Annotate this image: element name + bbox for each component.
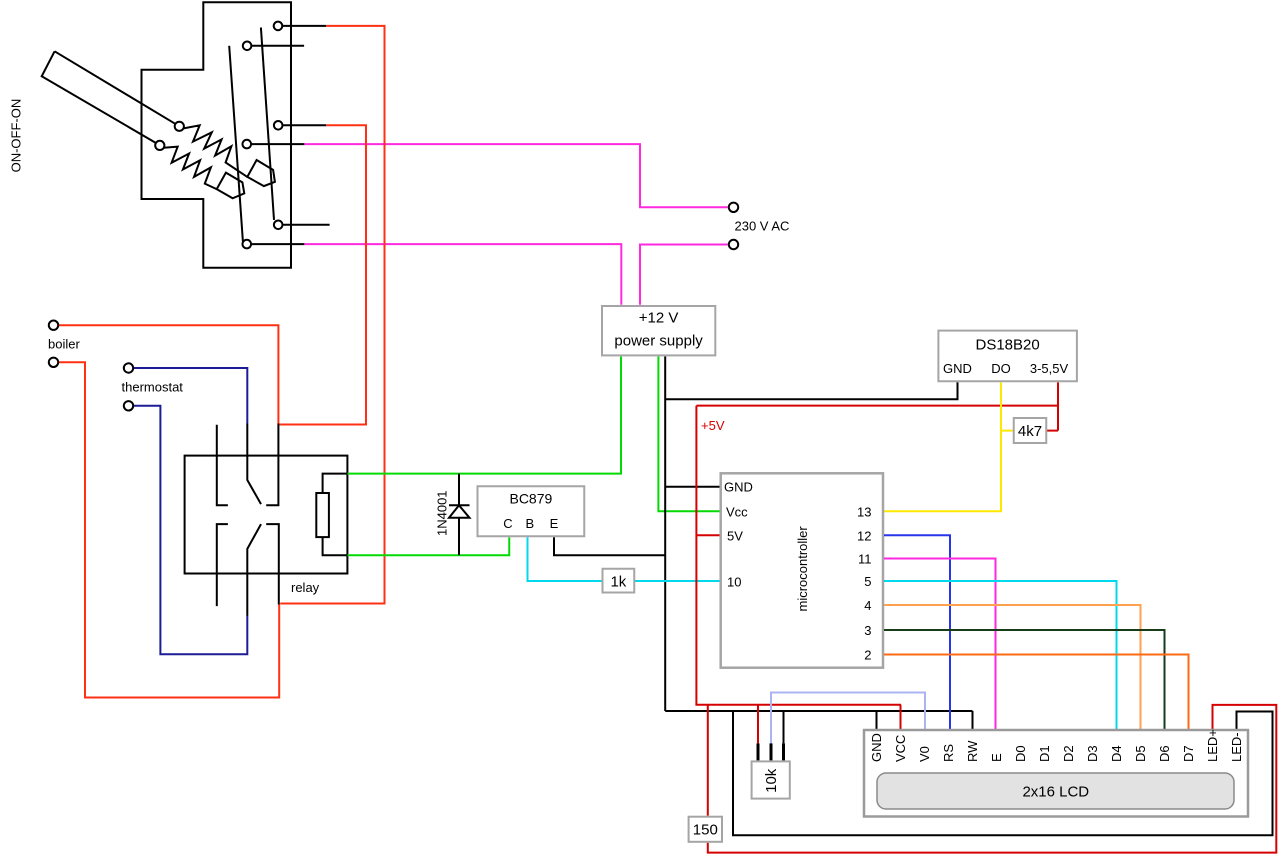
wire black: 10k wiper lead bbox=[770, 743, 773, 760]
svg-text:D4: D4 bbox=[1109, 745, 1124, 762]
svg-text:D5: D5 bbox=[1133, 745, 1148, 762]
diode D1 triangle bbox=[449, 505, 470, 518]
svg-text:2: 2 bbox=[864, 648, 871, 663]
switch S1 plunger lower bbox=[217, 173, 245, 199]
svg-text:LED+: LED+ bbox=[1205, 729, 1220, 762]
svg-text:+5V: +5V bbox=[701, 418, 725, 433]
wire red: 150 resistor to LCD LED+ loop bbox=[708, 705, 1277, 853]
wire blue: pin 12 to LCD RS bbox=[884, 535, 950, 729]
relay K1 lower contact NC (stub down) bbox=[217, 524, 228, 606]
wire lavender: 10k wiper to LCD V0 bbox=[771, 693, 925, 761]
svg-text:4k7: 4k7 bbox=[1018, 423, 1042, 440]
relay K1 upper contact NO (to boiler red) bbox=[266, 424, 278, 506]
svg-text:Vcc: Vcc bbox=[726, 504, 748, 519]
svg-text:BC879: BC879 bbox=[509, 491, 552, 507]
svg-text:VCC: VCC bbox=[893, 735, 908, 762]
switch S1 terminal circle pin 3 bbox=[274, 121, 283, 130]
wire yellow: DO junction to 4k7 bbox=[1001, 430, 1014, 432]
svg-text:150: 150 bbox=[693, 822, 718, 839]
wire black: drop to 10k right pin bbox=[783, 711, 785, 743]
wire yellow: DS18B20 DO down to microcontroller pin 13 bbox=[884, 382, 1001, 511]
relay K1 box bbox=[185, 456, 348, 574]
LCD display area bbox=[877, 773, 1234, 809]
wire black: transistor emitter to GND vertical bbox=[554, 537, 665, 555]
svg-text:1k: 1k bbox=[610, 574, 626, 591]
wire dark green: pin 3 to LCD D6 bbox=[884, 630, 1165, 729]
svg-text:12: 12 bbox=[857, 528, 871, 543]
relay K1 coil wire top bbox=[323, 474, 348, 493]
wire black: 10k right pin lead bbox=[782, 743, 785, 760]
wire magenta: switch pin 6 to power supply input 1 bbox=[304, 244, 621, 305]
svg-text:E: E bbox=[550, 516, 559, 531]
svg-text:D2: D2 bbox=[1061, 745, 1076, 762]
svg-text:LED-: LED- bbox=[1229, 732, 1244, 762]
wire magenta: pin 11 to LCD E bbox=[884, 559, 996, 730]
switch S1 lever bbox=[42, 51, 180, 145]
wire magenta: 230V terminal 2 to power supply input 2 bbox=[640, 245, 728, 305]
switch S1 terminal circle pin 5 bbox=[274, 221, 283, 230]
switch S1 terminal circle pin 2 bbox=[243, 42, 252, 51]
svg-text:D0: D0 bbox=[1013, 745, 1028, 762]
svg-text:2x16 LCD: 2x16 LCD bbox=[1022, 784, 1089, 801]
switch S1 terminal stub pin 1 bbox=[282, 25, 327, 27]
wire cyan: transistor base through 1k to microcontroller pin 10 bbox=[528, 537, 603, 581]
wire cyan: 1k to microcontroller pin 10 bbox=[634, 580, 719, 582]
switch S1 pivot circle upper bbox=[175, 122, 184, 131]
svg-text:5V: 5V bbox=[727, 528, 743, 543]
diode D1 cathode bar bbox=[449, 504, 470, 506]
wire red +5V: 4k7 to supply vertical bbox=[1046, 430, 1058, 432]
wire black: power supply GND main vertical bbox=[664, 357, 666, 712]
wire dark blue: thermostat terminal 1 to relay upper arm bbox=[134, 368, 248, 424]
wire black: GND bottom rail to LCD (GND, RW, 10k) bbox=[665, 710, 972, 712]
svg-text:power supply: power supply bbox=[614, 333, 703, 350]
switch S1 terminal circle pin 4 bbox=[243, 140, 252, 149]
wire black: 10k left pin lead bbox=[757, 743, 760, 760]
switch S1 moving contact bar right bbox=[261, 28, 274, 220]
svg-text:ON-OFF-ON: ON-OFF-ON bbox=[9, 99, 24, 173]
relay K1 lower contact NO (to boiler red) bbox=[266, 524, 279, 604]
switch S1 terminal stub pin 4 bbox=[251, 143, 305, 145]
svg-text:10: 10 bbox=[727, 575, 741, 590]
svg-text:3: 3 bbox=[864, 623, 871, 638]
wire black: drop to LCD GND pin bbox=[876, 711, 878, 729]
svg-text:230 V AC: 230 V AC bbox=[735, 219, 790, 234]
microcontroller U1 box bbox=[721, 473, 883, 667]
wire cyan: pin 5 to LCD D4 bbox=[884, 581, 1117, 729]
sensor U3 DS18B20 box bbox=[938, 331, 1077, 382]
wire red: drop to LCD VCC pin bbox=[900, 705, 902, 729]
svg-text:DO: DO bbox=[991, 361, 1011, 376]
230V AC terminal circle 2 bbox=[729, 240, 738, 249]
wire red: branch to microcontroller 5V pin bbox=[696, 534, 719, 536]
wire green: relay coil bottom to transistor collector bbox=[347, 537, 509, 555]
potentiometer R4 10k box bbox=[752, 761, 790, 798]
relay K1 upper moving arm bbox=[247, 424, 261, 505]
svg-text:1N4001: 1N4001 bbox=[435, 490, 450, 536]
wire black: GND loop to LCD LED- bbox=[733, 711, 1273, 835]
svg-text:3-5,5V: 3-5,5V bbox=[1030, 361, 1069, 376]
svg-text:5: 5 bbox=[864, 574, 871, 589]
svg-text:10k: 10k bbox=[763, 768, 780, 793]
svg-text:+12 V: +12 V bbox=[639, 310, 679, 327]
switch S1 moving contact bar left bbox=[229, 46, 243, 242]
LCD module box bbox=[864, 730, 1248, 817]
wire green: power supply out 2 down to microcontroller Vcc bbox=[658, 357, 719, 512]
switch S1 terminal circle pin 6 bbox=[243, 240, 252, 249]
wire magenta: switch pin 4 to 230V terminal 1 bbox=[304, 144, 727, 207]
svg-text:11: 11 bbox=[858, 552, 872, 567]
230V AC terminal circle 1 bbox=[729, 203, 738, 212]
wire red +5V: horizontal rail from microcontroller area to DS18B20 bbox=[696, 405, 1058, 407]
switch S1 terminal stub pin 5 bbox=[282, 224, 330, 226]
relay K1 lower moving arm bbox=[247, 524, 261, 616]
thermostat terminal circle 1 bbox=[124, 363, 133, 372]
resistor R2 1k box bbox=[603, 569, 635, 593]
wire black: GND branch to DS18B20 bbox=[665, 382, 957, 399]
wire light orange: pin 4 to LCD D5 bbox=[884, 605, 1141, 729]
power supply U2 box bbox=[602, 306, 715, 355]
svg-text:thermostat: thermostat bbox=[122, 380, 184, 395]
switch S1 pivot circle lower bbox=[155, 141, 164, 150]
relay K1 upper contact NC (stub up) bbox=[217, 425, 228, 505]
svg-text:relay: relay bbox=[291, 580, 320, 595]
switch S1 spring lower bbox=[164, 147, 217, 190]
switch S1 terminal stub pin 6 bbox=[251, 243, 305, 245]
svg-text:GND: GND bbox=[943, 361, 972, 376]
wire orange: pin 2 to LCD D7 bbox=[884, 655, 1189, 730]
wire red: branch down to 150 resistor bbox=[707, 705, 709, 816]
wire red +5V: main vertical down to LCD rail bbox=[696, 406, 901, 705]
svg-text:13: 13 bbox=[857, 504, 871, 519]
wire dark blue: thermostat terminal 2 around bottom to relay lower arm bbox=[134, 406, 248, 654]
wire black: GND branch to microcontroller GND bbox=[665, 486, 719, 488]
svg-text:D6: D6 bbox=[1157, 745, 1172, 762]
wire red: boiler terminal 2 around bottom to relay lower contact junction bbox=[59, 362, 279, 697]
switch S1 spring upper bbox=[184, 125, 248, 177]
switch S1 terminal stub pin 3 bbox=[282, 124, 326, 126]
svg-text:E: E bbox=[989, 753, 1004, 762]
svg-text:V0: V0 bbox=[917, 746, 932, 762]
svg-text:DS18B20: DS18B20 bbox=[975, 337, 1039, 354]
svg-text:RS: RS bbox=[941, 744, 956, 762]
svg-text:C: C bbox=[503, 516, 512, 531]
svg-text:boiler: boiler bbox=[48, 336, 80, 351]
resistor R5 150 box bbox=[689, 817, 722, 842]
relay K1 coil bbox=[316, 493, 329, 537]
svg-text:GND: GND bbox=[724, 480, 753, 495]
svg-text:D7: D7 bbox=[1181, 745, 1196, 762]
wire red: switch pin 3 down to relay upper junction bbox=[279, 125, 366, 424]
svg-text:D1: D1 bbox=[1037, 745, 1052, 762]
wire green: power supply 12V out to relay coil top, with diode junction bbox=[347, 357, 621, 474]
svg-text:microcontroller: microcontroller bbox=[795, 526, 810, 612]
wire red: switch pin 1 down to relay lower junction bbox=[280, 26, 384, 604]
switch S1 terminal circle pin 1 bbox=[274, 22, 283, 31]
toggle switch S1 body outline bbox=[142, 2, 292, 267]
thermostat terminal circle 2 bbox=[124, 401, 133, 410]
wire red: boiler terminal 1 to relay upper contact junction bbox=[59, 325, 278, 423]
diode D1 1N4001 top lead bbox=[458, 474, 460, 506]
svg-text:D3: D3 bbox=[1085, 745, 1100, 762]
boiler terminal circle 1 bbox=[49, 321, 58, 330]
boiler terminal circle 2 bbox=[49, 358, 58, 367]
switch S1 plunger upper bbox=[247, 160, 275, 186]
svg-text:B: B bbox=[525, 516, 534, 531]
wire red: branch down to 10k left pin bbox=[757, 705, 759, 744]
wire black: drop to LCD RW pin bbox=[972, 711, 974, 729]
svg-text:4: 4 bbox=[864, 598, 871, 613]
switch S1 terminal stub pin 2 bbox=[251, 45, 304, 47]
wire red +5V: vertical rail and branch to DS18B20 supply bbox=[1057, 382, 1059, 430]
svg-text:GND: GND bbox=[869, 733, 884, 762]
svg-text:RW: RW bbox=[965, 740, 980, 762]
transistor Q1 BC879 box bbox=[478, 486, 585, 536]
relay K1 coil wire bottom bbox=[323, 537, 348, 555]
resistor R3 4k7 box bbox=[1014, 418, 1047, 443]
diode D1 bottom lead bbox=[458, 518, 460, 555]
